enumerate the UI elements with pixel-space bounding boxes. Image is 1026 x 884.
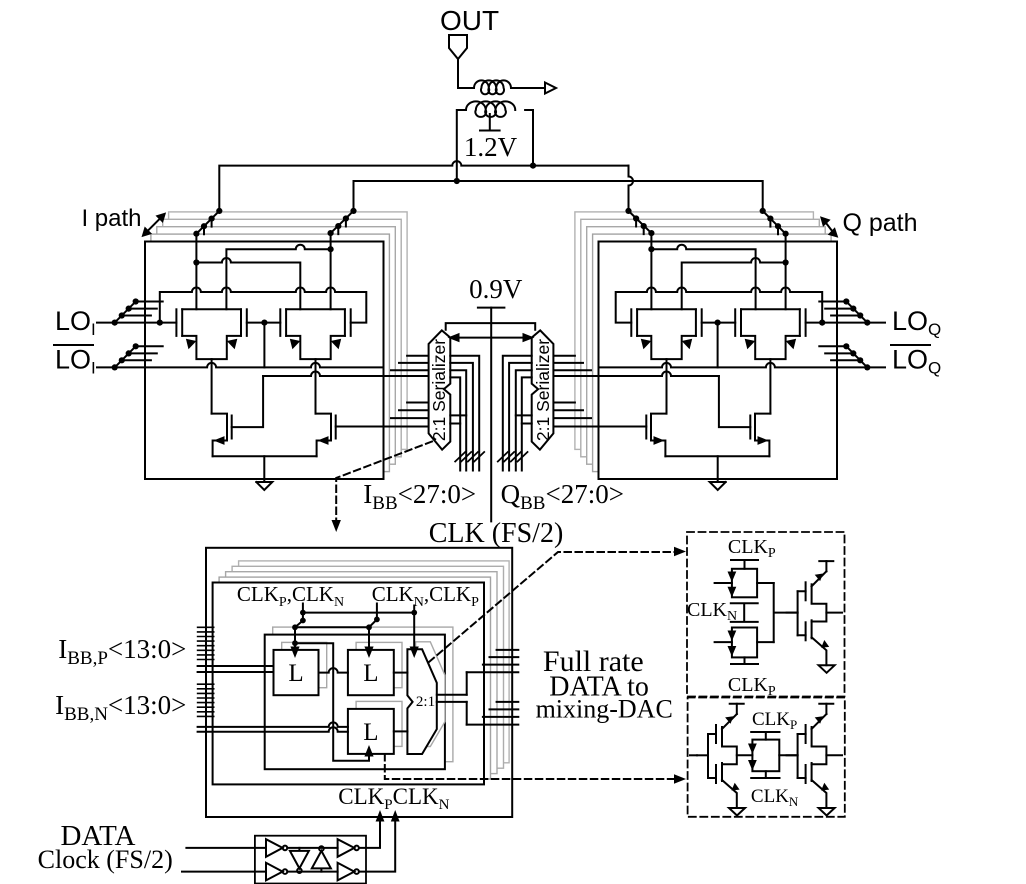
mux detail dashed box xyxy=(688,698,845,817)
dashed leader L3 to mux detail xyxy=(385,754,678,779)
clock wire into mux xyxy=(413,606,415,650)
latch L1 gray copy xyxy=(282,642,327,687)
dashed zoom-in leader from I serializer to latch block xyxy=(336,442,432,524)
svg-text:L: L xyxy=(363,719,378,746)
junction secondary-right on upper rail xyxy=(530,163,536,169)
svg-text:CLKP: CLKP xyxy=(752,709,797,732)
CLKP gate tap above pass gate xyxy=(751,732,779,740)
junction xyxy=(193,259,199,265)
svg-text:IBB<27:0>: IBB<27:0> xyxy=(363,479,476,514)
clock wire into L1 xyxy=(294,627,296,649)
2:1 serializer block xyxy=(429,330,451,449)
svg-text:CLKN: CLKN xyxy=(687,599,737,624)
input inverter U2 xyxy=(690,754,697,756)
svg-text:LOQ: LOQ xyxy=(892,306,941,339)
svg-text:CLKN,CLKP: CLKN,CLKP xyxy=(372,582,479,610)
LObar wire up to inner gates junction xyxy=(263,323,265,368)
latch L2 xyxy=(348,650,394,695)
U2 output to pass gate xyxy=(737,754,753,756)
serializer slice front box xyxy=(213,583,484,785)
serializer supply bracket xyxy=(446,323,536,330)
svg-text:Clock (FS/2): Clock (FS/2) xyxy=(38,845,173,874)
summing node wire xyxy=(774,583,798,642)
baseband bus wires into serializer xyxy=(450,356,479,471)
IBB,P input bus hatch xyxy=(198,627,214,659)
CLK / supply center line down to CLK (FS/2) xyxy=(490,308,492,522)
wire L1 to L2 (hop over clock wire) xyxy=(319,668,348,673)
IBB,N input bus hatch xyxy=(198,684,214,716)
QBB bus hatch marks xyxy=(498,452,528,462)
svg-text:mixing-DAC: mixing-DAC xyxy=(536,695,673,724)
cascode data switch M5 (left) xyxy=(212,414,232,441)
clock buffer box xyxy=(255,836,366,884)
latch cell gray copy xyxy=(273,627,453,762)
dashed leader mux to clocked-latch detail xyxy=(429,552,678,662)
supply feed wire to quad1 left drain xyxy=(195,234,197,310)
LObar input slice taps xyxy=(115,346,136,367)
2:1 mux gray copy xyxy=(416,642,445,747)
svg-text:LOQ: LOQ xyxy=(892,345,941,378)
T1 output xyxy=(757,582,774,584)
mixer quad 1 xyxy=(176,309,246,413)
clock wire into L2 xyxy=(368,627,370,649)
stacked slice layers (gray) xyxy=(169,212,408,450)
inner gates link quad1-right to quad2-left xyxy=(247,322,280,324)
full-rate data out lines P (per slice) xyxy=(467,650,519,672)
pass transistor T2 xyxy=(732,628,757,658)
T2 output xyxy=(757,641,774,643)
wire L2 to mux xyxy=(394,672,408,674)
output rail B from quad1 right drain (hop over quad2 left drain) xyxy=(226,245,330,310)
T3 output to inverter U3 xyxy=(779,754,797,756)
full-rate data out lines N (per slice) xyxy=(467,702,519,725)
svg-text:I path: I path xyxy=(81,205,141,232)
LO gate line across top (4 hops over drains) to quad2 right gate xyxy=(160,288,366,323)
mux output pair xyxy=(437,695,467,702)
Q path mixer slice assembly (mirror of I path) xyxy=(503,208,885,490)
clock rail to L2 xyxy=(295,626,369,628)
svg-text:OUT: OUT xyxy=(440,5,499,36)
ground xyxy=(256,456,272,490)
clock buffer inverter A1 xyxy=(266,839,283,857)
svg-text:2:1: 2:1 xyxy=(416,694,435,710)
latch L1 xyxy=(274,650,319,695)
latch L3 gray copy xyxy=(356,701,402,746)
RF output arrow (open) xyxy=(545,83,556,94)
dashed leader arrowhead xyxy=(332,520,341,532)
wire pad to transformer primary xyxy=(458,59,474,88)
CLKN gate (middle, shared) xyxy=(731,603,758,622)
transformer secondary winding xyxy=(466,101,515,117)
T1 input xyxy=(715,582,732,584)
lower supply rail with end drops xyxy=(354,181,763,211)
clock drop from CLKN,CLKP label xyxy=(376,604,378,620)
0.9V supply tap symbol xyxy=(478,307,505,309)
CLKP gate tap (top) xyxy=(731,560,758,569)
secondary center tap 1.2V supply symbol xyxy=(480,114,500,131)
serializer supply arrow line xyxy=(451,337,531,339)
svg-text:L: L xyxy=(363,660,378,687)
LO input line xyxy=(97,322,176,324)
wire primary to RF output arrow xyxy=(511,87,545,89)
serializer output lines to slice layers xyxy=(391,356,429,371)
mixer cell box xyxy=(145,242,384,480)
svg-text:LOI: LOI xyxy=(55,345,96,378)
supply slice fan 2 xyxy=(331,211,354,233)
CLKP gate tap (bottom) xyxy=(731,657,758,664)
wire secondary left terminal down to lower rail xyxy=(457,110,466,181)
stacked serializer slice layers (gray) xyxy=(239,561,510,763)
svg-text:CLKPCLKN: CLKPCLKN xyxy=(338,784,449,813)
output pad OUT xyxy=(449,35,467,59)
DATA input line xyxy=(186,847,266,849)
svg-text:IBB,P<13:0>: IBB,P<13:0> xyxy=(58,634,186,669)
I path arrow xyxy=(146,216,163,233)
svg-text:2:1 Serializer: 2:1 Serializer xyxy=(533,339,553,441)
mixer quad 2 xyxy=(280,309,350,413)
output bus bars xyxy=(466,672,468,724)
supply feed wire to quad2 right drain xyxy=(330,233,332,309)
common source rail xyxy=(213,455,317,457)
svg-text:1.2V: 1.2V xyxy=(464,132,518,162)
clock rail to mux xyxy=(303,612,414,614)
svg-text:0.9V: 0.9V xyxy=(469,274,523,304)
clock drop from CLKP,CLKN label xyxy=(302,604,304,621)
wire secondary right terminal down to upper rail xyxy=(525,110,533,166)
pass gate T3 xyxy=(752,740,779,772)
clock jog to L1 column xyxy=(295,621,303,628)
pass transistor T1 xyxy=(732,569,757,598)
T2 input xyxy=(715,641,732,643)
cascode data switch M6 (right) xyxy=(316,414,336,441)
latch L3 xyxy=(348,709,394,754)
cross-coupling inverter (down) xyxy=(290,848,309,869)
output rail A to quad2 left drain (hop over quad1 right drain) xyxy=(196,258,300,309)
I path mixer slice assembly (mirrored for Q path) xyxy=(97,208,479,490)
clocked-latch detail dashed box xyxy=(687,532,845,697)
clock wire up into block (CLKN) xyxy=(359,818,395,872)
serializer data line N to M6 gate xyxy=(336,426,429,428)
CLKN gate tap below pass gate xyxy=(751,771,779,778)
IBB,N differential pair into L3 (hops over CLK wire) xyxy=(198,722,348,727)
junction secondary-left on lower rail xyxy=(454,178,460,184)
svg-text:QBB<27:0>: QBB<27:0> xyxy=(501,479,624,514)
upper supply rail (hop over x=456.8) with end drops xyxy=(219,161,628,211)
cross-coupling inverter (up) xyxy=(312,851,331,872)
clock buffer inverter A2 xyxy=(338,839,355,857)
svg-text:2:1 Serializer: 2:1 Serializer xyxy=(429,339,449,441)
LO input slice taps xyxy=(115,302,136,323)
svg-text:IBB,N<13:0>: IBB,N<13:0> xyxy=(55,690,186,725)
clock rail to L3 (down and under) xyxy=(295,643,369,761)
serializer data line P to M5 gate (hop over quad2 tail) xyxy=(263,372,429,377)
latch cell box xyxy=(265,635,445,770)
svg-text:CLK (FS/2): CLK (FS/2) xyxy=(429,518,564,549)
right end drop of upper rail, hop over lower rail xyxy=(629,166,634,211)
output inverter U1 xyxy=(787,561,835,673)
IBB bus hatch marks xyxy=(455,452,484,462)
transformer primary winding xyxy=(474,80,511,94)
wire L3 to mux xyxy=(394,730,408,732)
latch L2 gray copy xyxy=(356,642,402,687)
clock wire up into block (CLKP) xyxy=(359,818,380,848)
svg-text:L: L xyxy=(288,660,303,687)
junction xyxy=(328,246,334,252)
2:1 mux xyxy=(407,649,436,754)
Clock input line xyxy=(182,871,266,873)
svg-text:LOI: LOI xyxy=(55,306,96,339)
Q path arrow xyxy=(824,220,834,234)
supply slice fan 1 xyxy=(196,211,219,234)
clock buffer inverter B1 xyxy=(266,863,283,881)
clock buffer inverter B2 xyxy=(338,863,355,881)
svg-text:CLKP,CLKN: CLKP,CLKN xyxy=(237,582,344,610)
svg-text:CLKP: CLKP xyxy=(728,674,776,699)
svg-text:Q path: Q path xyxy=(842,209,917,237)
IBB,P differential pair into L1 xyxy=(198,666,274,672)
LObar input line (hops over quad tails) xyxy=(97,363,382,367)
output inverter U3 xyxy=(787,704,835,816)
svg-text:CLKP: CLKP xyxy=(728,536,776,561)
arrowhead into I serializer xyxy=(448,333,460,342)
arrowhead into Q serializer xyxy=(523,333,535,342)
serializer detail block outer box xyxy=(206,548,512,817)
svg-text:CLKN: CLKN xyxy=(751,786,799,809)
